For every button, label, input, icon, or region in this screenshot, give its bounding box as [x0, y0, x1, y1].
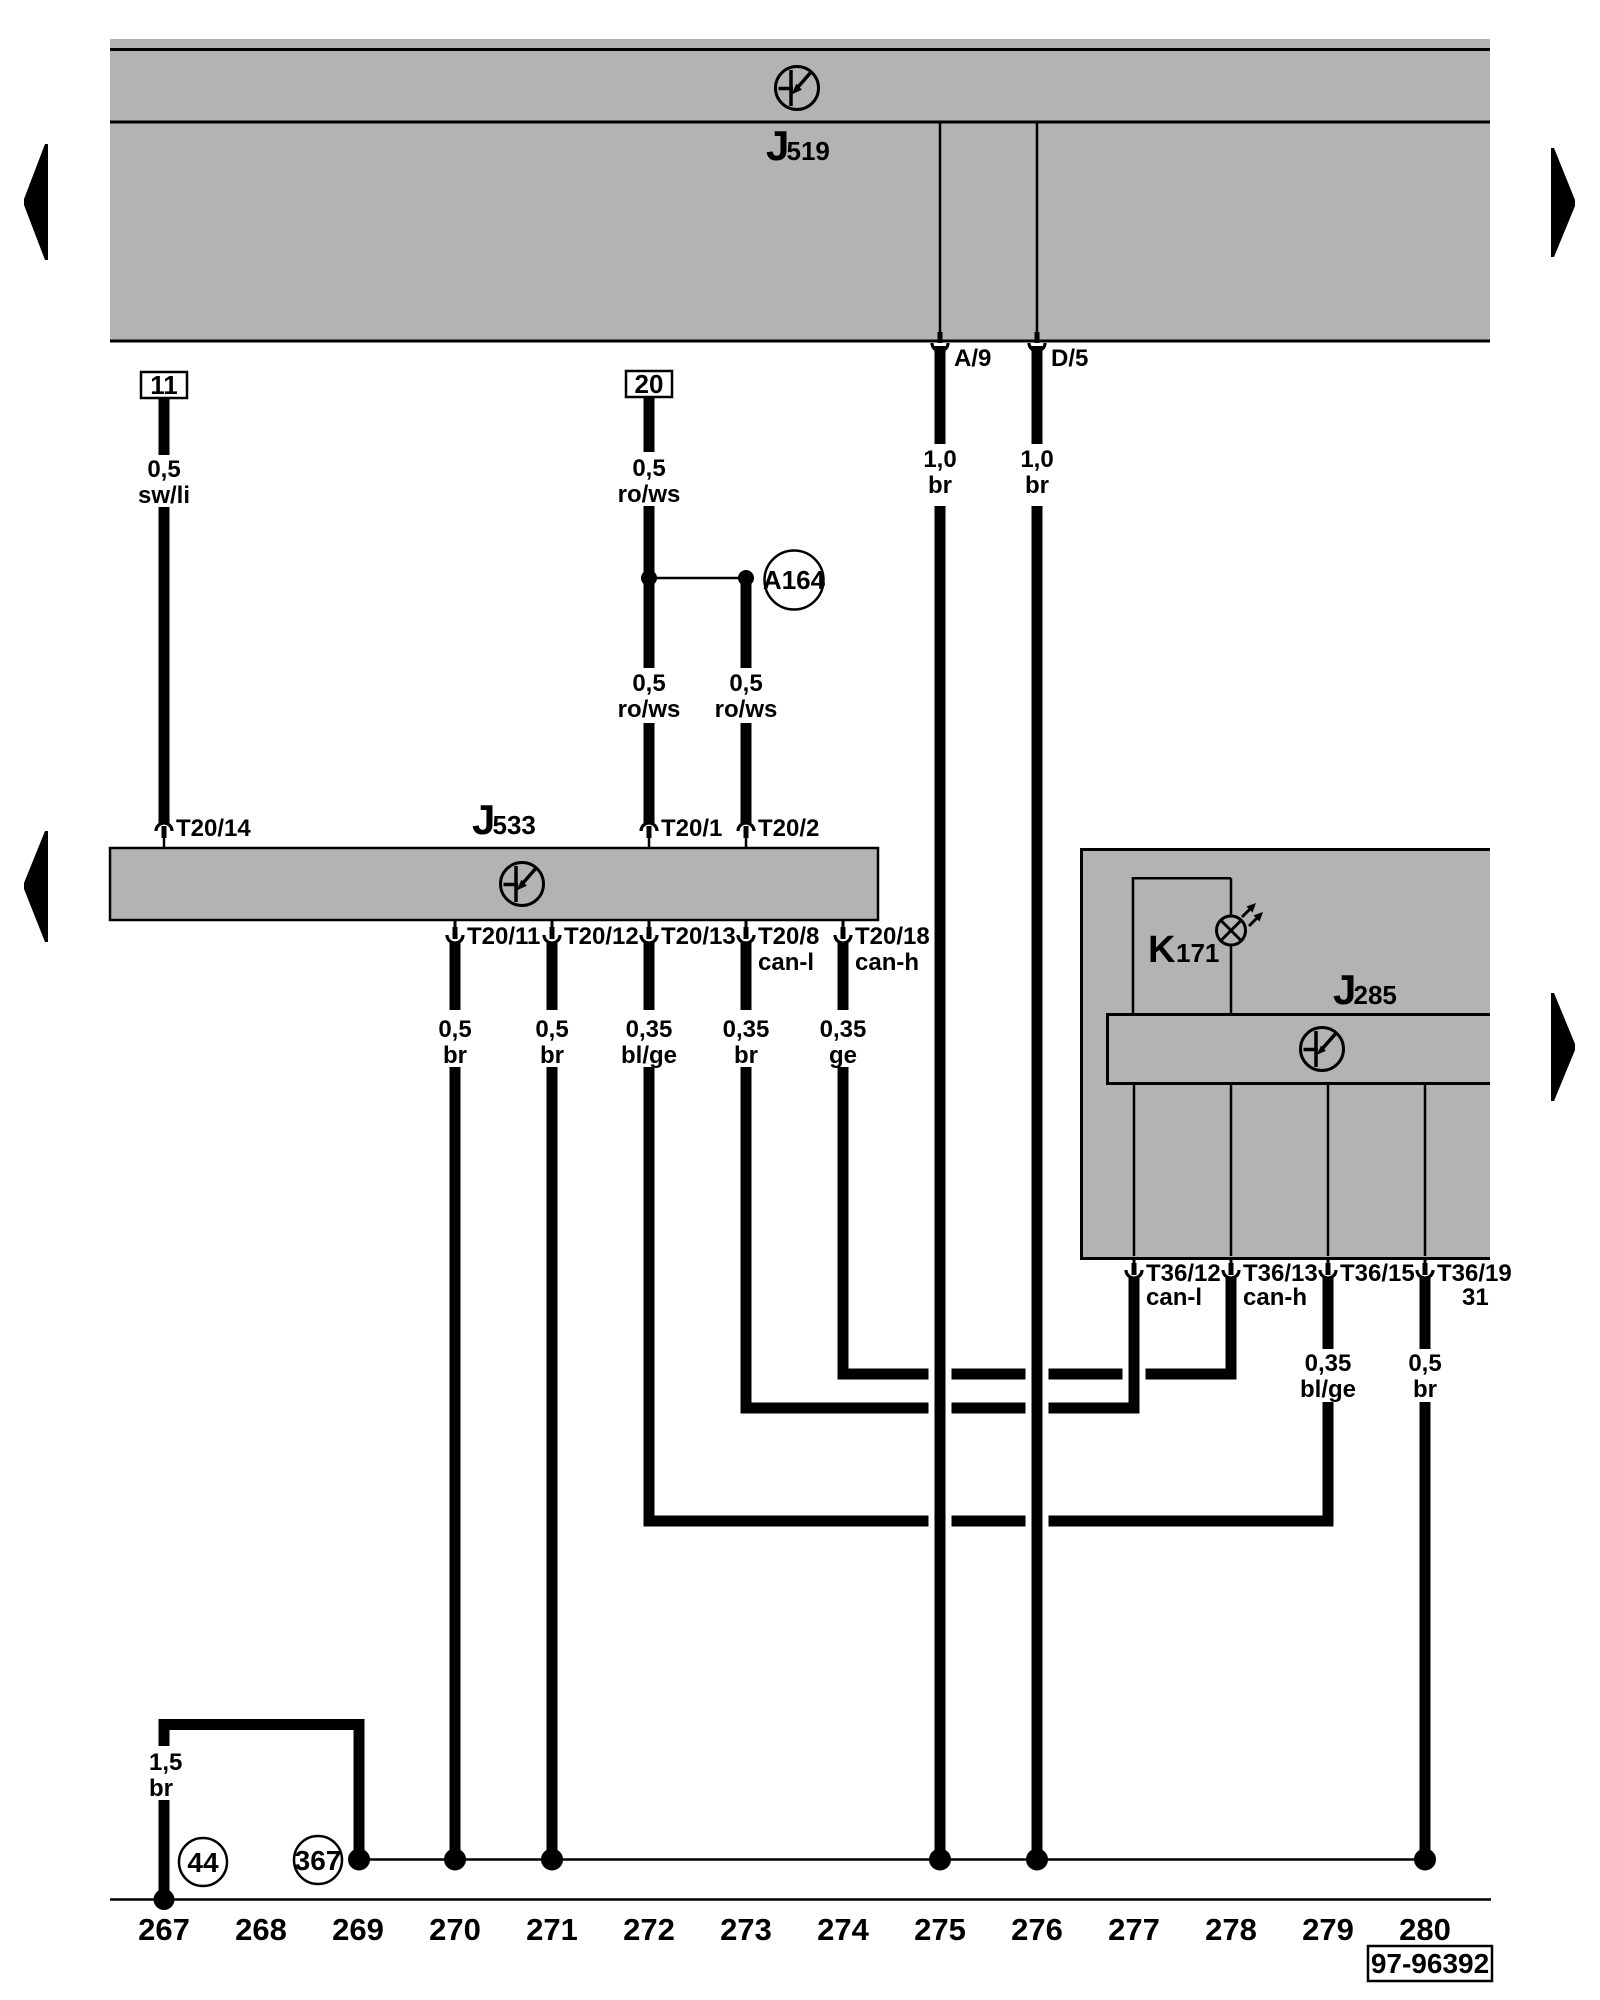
wire link to A164 branch	[649, 577, 746, 580]
svg-text:br: br	[928, 472, 952, 499]
svg-text:T20/13: T20/13	[661, 923, 736, 950]
pin A/9 connector	[932, 332, 948, 351]
svg-text:273: 273	[720, 1912, 772, 1947]
svg-text:0,5: 0,5	[632, 455, 665, 482]
svg-text:277: 277	[1108, 1912, 1160, 1947]
K171 lamp circuit loop	[1132, 877, 1231, 1013]
wire A/9 upper segment	[935, 346, 946, 444]
svg-text:0,5: 0,5	[1408, 1350, 1441, 1377]
wire from terminal 20 down to junction	[644, 506, 655, 578]
svg-text:br: br	[1025, 472, 1049, 499]
wire T20/18 upper segment	[838, 942, 849, 1010]
svg-text:1,0: 1,0	[923, 446, 956, 473]
svg-text:ro/ws: ro/ws	[618, 481, 681, 508]
ground wire right leg	[354, 1725, 365, 1856]
wire label 0,5 ro/ws upper	[618, 455, 681, 508]
wire T20/8 vertical down	[741, 1067, 752, 1414]
continuation arrow right middle	[1551, 993, 1575, 1101]
svg-text:44: 44	[187, 1847, 219, 1878]
wire label 0,35 bl/ge col279	[1300, 1350, 1356, 1403]
diagram number box 97-96392	[1368, 1946, 1492, 1981]
continuation arrow right top	[1551, 148, 1575, 257]
svg-text:bl/ge: bl/ge	[621, 1042, 677, 1069]
connector T20/18	[835, 920, 851, 943]
continuation arrow left middle	[24, 831, 48, 942]
wire label 1,0 br col276	[1020, 446, 1053, 499]
svg-text:31: 31	[1462, 1284, 1489, 1311]
svg-text:0,5: 0,5	[535, 1016, 568, 1043]
K continuation symbol in J519	[776, 67, 819, 110]
junction node ground bus col276	[1026, 1849, 1048, 1871]
splice designation circle A164	[763, 551, 826, 610]
wire label 1,0 br col275	[923, 446, 956, 499]
svg-text:0,35: 0,35	[1305, 1350, 1352, 1377]
control unit box J285 outer	[1080, 848, 1490, 1260]
svg-text:533: 533	[493, 810, 536, 840]
pin label T20/18 can-h	[855, 923, 930, 976]
svg-text:280: 280	[1399, 1912, 1451, 1947]
pin label T20/8 can-l	[758, 923, 819, 976]
connector T20/14	[156, 823, 172, 849]
svg-text:T36/19: T36/19	[1437, 1260, 1512, 1287]
svg-text:270: 270	[429, 1912, 481, 1947]
junction node ground bus col280	[1414, 1849, 1436, 1871]
svg-text:0,35: 0,35	[723, 1016, 770, 1043]
J285 internal connector rail	[1106, 1013, 1490, 1085]
connector T20/8	[738, 920, 754, 943]
terminal box 11	[141, 370, 187, 400]
svg-text:285: 285	[1354, 980, 1397, 1010]
svg-text:T36/12: T36/12	[1146, 1260, 1221, 1287]
internal wire to pin T36/15	[1327, 1085, 1330, 1256]
LED lamp symbol K171	[1217, 903, 1264, 945]
ground point circle 44	[179, 1838, 227, 1886]
wire label 0,35 ge col274	[820, 1016, 867, 1069]
wire T20/1 middle segment	[644, 578, 655, 668]
svg-text:0,5: 0,5	[729, 670, 762, 697]
pin label T36/13 can-h	[1243, 1260, 1318, 1311]
svg-text:br: br	[1413, 1376, 1437, 1403]
svg-text:T20/2: T20/2	[758, 815, 819, 842]
label J533	[472, 796, 536, 843]
wire T20/13 upper segment	[644, 942, 655, 1010]
junction node A164 branch	[738, 570, 754, 586]
connector T20/2	[738, 823, 754, 849]
bottom rail line	[110, 1898, 1491, 1901]
connector T20/12	[544, 920, 560, 943]
wire A/9 to ground bus	[935, 506, 946, 1855]
svg-text:ro/ws: ro/ws	[715, 696, 778, 723]
wire A164 to T20/2 upper segment	[741, 583, 752, 668]
svg-text:can-h: can-h	[1243, 1284, 1307, 1311]
pin label T36/19 31	[1437, 1260, 1512, 1311]
wire label 0,35 br col273	[723, 1016, 770, 1069]
wire T36/12 to can-l horizontal	[1129, 1278, 1140, 1414]
svg-text:A164: A164	[763, 565, 826, 595]
svg-text:can-h: can-h	[855, 949, 919, 976]
wire T20/13 vertical down	[644, 1067, 655, 1527]
svg-text:br: br	[149, 1775, 173, 1802]
wire T36/19 upper segment	[1420, 1278, 1431, 1349]
svg-text:can-l: can-l	[1146, 1284, 1202, 1311]
connector T36/12	[1126, 1257, 1142, 1278]
svg-text:sw/li: sw/li	[138, 482, 190, 509]
svg-text:11: 11	[150, 370, 178, 400]
svg-text:T20/12: T20/12	[564, 923, 639, 950]
connector T20/1	[641, 823, 657, 849]
K continuation symbol in J533	[501, 863, 544, 906]
continuation arrow left top	[24, 144, 48, 260]
control unit box J519	[110, 39, 1490, 342]
pin label T36/12 can-l	[1146, 1260, 1221, 1311]
wire label 1,5 br	[149, 1749, 182, 1802]
svg-text:276: 276	[1011, 1912, 1063, 1947]
svg-text:272: 272	[623, 1912, 675, 1947]
svg-text:K: K	[1148, 929, 1176, 971]
junction node ground bus col269	[348, 1849, 370, 1871]
svg-text:279: 279	[1302, 1912, 1354, 1947]
svg-text:267: 267	[138, 1912, 190, 1947]
svg-text:97-96392: 97-96392	[1371, 1948, 1489, 1979]
svg-text:0,35: 0,35	[820, 1016, 867, 1043]
internal wire to pin T36/19	[1424, 1085, 1427, 1256]
internal wire to pin D/5	[1036, 123, 1039, 333]
svg-text:1,5: 1,5	[149, 1749, 182, 1776]
wire label 0,5 br col271	[535, 1016, 568, 1069]
svg-text:br: br	[540, 1042, 564, 1069]
ground point circle 367	[294, 1836, 342, 1884]
wire D/5 to ground bus	[1032, 506, 1043, 1855]
svg-text:271: 271	[526, 1912, 578, 1947]
wire T20/12 to ground bus	[547, 1067, 558, 1855]
wire label 0,5 ro/ws right	[715, 670, 778, 723]
wire T36/13 to can-h horizontal	[1226, 1278, 1237, 1380]
wire T20/1 lower segment	[644, 723, 655, 823]
svg-text:278: 278	[1205, 1912, 1257, 1947]
svg-text:0,35: 0,35	[626, 1016, 673, 1043]
svg-text:A/9: A/9	[954, 345, 991, 372]
wire label 0,5 sw/li	[138, 456, 190, 509]
svg-text:1,0: 1,0	[1020, 446, 1053, 473]
svg-text:0,5: 0,5	[438, 1016, 471, 1043]
wire A164 to T20/2 lower segment	[741, 723, 752, 823]
svg-text:269: 269	[332, 1912, 384, 1947]
ground wire 1,5 br lower segment	[159, 1800, 170, 1899]
svg-text:br: br	[734, 1042, 758, 1069]
svg-text:ro/ws: ro/ws	[618, 696, 681, 723]
pin D/5 connector	[1029, 332, 1045, 351]
K continuation symbol in J285	[1301, 1028, 1344, 1071]
junction node on wire T20/1	[641, 570, 657, 586]
wire from terminal 20, upper segment	[644, 397, 655, 452]
svg-text:T20/8: T20/8	[758, 923, 819, 950]
junction node ground bus col275	[929, 1849, 951, 1871]
wire T20/12 upper segment	[547, 942, 558, 1010]
wire label 0,5 br col280	[1408, 1350, 1441, 1403]
svg-text:T20/1: T20/1	[661, 815, 722, 842]
label J285	[1333, 966, 1397, 1013]
junction node ground bus col270	[444, 1849, 466, 1871]
control unit box J533	[110, 848, 878, 920]
wire label 0,35 bl/ge col272	[621, 1016, 677, 1069]
wire can-h horizontal to T36/13	[838, 1369, 1237, 1380]
svg-text:367: 367	[295, 1845, 342, 1876]
svg-text:274: 274	[817, 1912, 869, 1947]
wire from terminal 11 to J533 pin T20/14	[159, 507, 170, 823]
wire label 0,5 br col270	[438, 1016, 471, 1069]
connector T36/13	[1223, 1257, 1239, 1278]
svg-text:can-l: can-l	[758, 949, 814, 976]
svg-text:T20/18: T20/18	[855, 923, 930, 950]
label J519	[766, 122, 830, 169]
wire T36/15 upper segment	[1323, 1278, 1334, 1349]
svg-text:268: 268	[235, 1912, 287, 1947]
wire label 0,5 ro/ws left	[618, 670, 681, 723]
label K171	[1148, 929, 1219, 971]
svg-text:275: 275	[914, 1912, 966, 1947]
connector T20/13	[641, 920, 657, 943]
wire T20/8 upper segment	[741, 942, 752, 1010]
internal wire to pin T36/12	[1133, 1085, 1136, 1256]
svg-text:T20/11: T20/11	[467, 923, 540, 950]
svg-text:bl/ge: bl/ge	[1300, 1376, 1356, 1403]
svg-text:0,5: 0,5	[632, 670, 665, 697]
connector T36/15	[1320, 1257, 1336, 1278]
wire T36/19 to ground bus	[1420, 1402, 1431, 1855]
connector T36/19	[1417, 1257, 1433, 1278]
svg-text:D/5: D/5	[1051, 345, 1088, 372]
wire can-l horizontal to T36/12	[741, 1403, 1140, 1414]
svg-text:T20/14: T20/14	[176, 815, 251, 842]
internal wire to pin A/9	[939, 123, 942, 333]
ground bus line 367	[359, 1858, 1425, 1861]
wire T36/15 lower segment	[1323, 1402, 1334, 1527]
connector T20/11	[447, 920, 463, 943]
wire T20/13 to T36/15 horizontal	[644, 1516, 1334, 1527]
wire T20/18 vertical down	[838, 1067, 849, 1380]
svg-text:br: br	[443, 1042, 467, 1069]
junction node ground bus col271	[541, 1849, 563, 1871]
terminal box 20	[626, 369, 672, 399]
wire T20/11 to ground bus	[450, 1067, 461, 1855]
svg-text:T36/13: T36/13	[1243, 1260, 1318, 1287]
wire D/5 upper segment	[1032, 346, 1043, 444]
wire from terminal 11, upper segment	[159, 398, 170, 455]
ground wire horizontal bridge	[159, 1719, 365, 1730]
internal wire to pin T36/13	[1230, 1085, 1233, 1256]
wire T20/11 upper segment	[450, 942, 461, 1010]
svg-text:519: 519	[787, 136, 830, 166]
svg-text:20: 20	[635, 369, 664, 399]
svg-text:ge: ge	[829, 1042, 857, 1069]
junction node on bottom rail col267	[154, 1889, 175, 1910]
svg-text:T36/15: T36/15	[1340, 1260, 1415, 1287]
svg-text:171: 171	[1176, 938, 1219, 968]
svg-text:0,5: 0,5	[147, 456, 180, 483]
ground wire 1,5 br upper segment	[159, 1730, 170, 1746]
